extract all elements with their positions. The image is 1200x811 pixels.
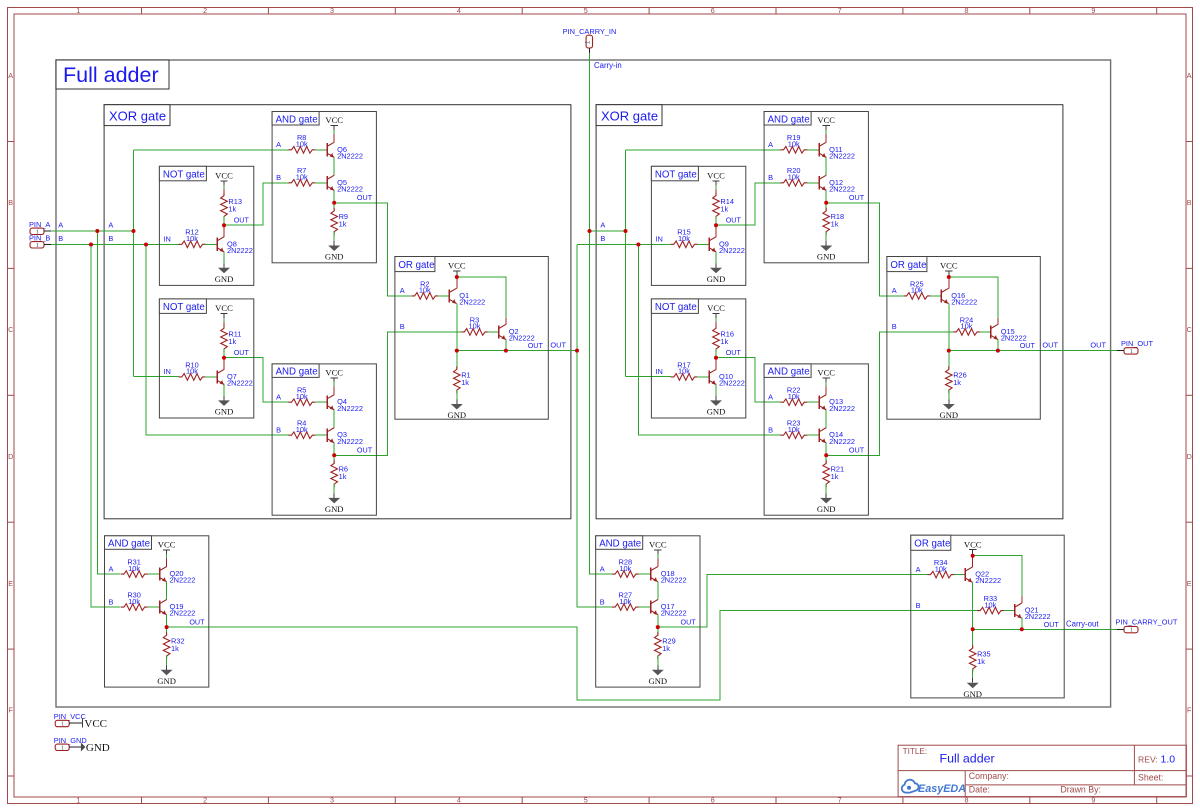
wire R3 to Q2 base (488, 331, 499, 333)
wire Q1 emitter to output node (456, 304, 458, 351)
svg-text:A: A (916, 565, 921, 574)
svg-text:AND gate: AND gate (276, 114, 318, 125)
resistor R30 (121, 591, 148, 611)
svg-text:B: B (108, 234, 113, 243)
OR gate 3 box (911, 535, 1064, 698)
wire Q20 emitter to Q19 collector (166, 582, 168, 600)
svg-text:Carry-out: Carry-out (1066, 619, 1099, 628)
svg-text:1k: 1k (339, 220, 347, 229)
svg-text:GND: GND (817, 252, 836, 262)
svg-text:VCC: VCC (325, 368, 343, 378)
svg-text:OUT: OUT (357, 446, 373, 455)
wire output node to R9 (333, 203, 335, 211)
svg-text:OUT: OUT (234, 215, 250, 224)
transistor Q10 (709, 369, 745, 387)
svg-text:IN: IN (163, 235, 170, 244)
transistor Q14 (819, 428, 855, 446)
wire sum1 vertical to AND4 input B (577, 245, 612, 608)
svg-text:XOR gate: XOR gate (109, 108, 166, 123)
svg-text:B: B (600, 597, 605, 606)
svg-text:10k: 10k (788, 392, 800, 401)
svg-text:2N2222: 2N2222 (975, 576, 1001, 585)
NOT gate 1 label (159, 166, 206, 181)
wire sum1 to NOT3 input (577, 244, 671, 246)
svg-text:Sheet:: Sheet: (1138, 772, 1163, 782)
svg-text:GND: GND (707, 407, 726, 417)
node junction net A tap 1 (95, 229, 99, 233)
AND gate 2 box (272, 364, 376, 515)
wire R2 to Q1 base (438, 295, 449, 297)
svg-text:GND: GND (939, 410, 958, 420)
wire carry-in to AND5 input A (626, 149, 781, 151)
wire R19 to Q11 base (807, 149, 819, 151)
svg-text:OUT: OUT (189, 617, 205, 626)
full adder title box (56, 60, 169, 89)
wire Q19 emitter to output node (166, 615, 168, 627)
resistor R9 (331, 208, 348, 235)
wire carry-in to NOT4 input (626, 376, 672, 378)
svg-text:OUT: OUT (528, 341, 544, 350)
wire VCC stub (OR gate 1) (456, 275, 458, 277)
wire R14 to collector (715, 216, 717, 225)
svg-text:A: A (58, 221, 63, 230)
wire Q18 emitter to Q17 collector (657, 582, 659, 600)
svg-text:B: B (892, 322, 897, 331)
svg-text:B: B (768, 425, 773, 434)
transistor Q11 (819, 142, 855, 160)
resistor R20 (781, 166, 808, 186)
svg-text:E: E (1187, 579, 1192, 588)
wire sum1 to AND6 input B (638, 245, 780, 436)
wire R31 to Q20 base (147, 573, 159, 575)
ground (215, 396, 234, 417)
svg-text:B: B (916, 601, 921, 610)
svg-text:GND: GND (817, 504, 836, 514)
wire R18 to ground (825, 231, 827, 241)
port PIN_CARRY_IN (563, 27, 617, 53)
wire VCC to R14 (715, 185, 717, 189)
wire Q17 emitter to output node (657, 615, 659, 627)
svg-text:VCC: VCC (940, 261, 958, 271)
port PIN_GND (54, 736, 87, 751)
wire R22 to Q13 base (807, 401, 819, 403)
resistor R18 (823, 208, 844, 235)
svg-text:10k: 10k (128, 597, 140, 606)
svg-text:8: 8 (965, 6, 969, 15)
svg-text:B: B (276, 173, 281, 182)
svg-text:10k: 10k (788, 425, 800, 434)
wire R20 to Q12 base (807, 182, 819, 184)
svg-text:10k: 10k (469, 322, 481, 331)
svg-text:VCC: VCC (84, 718, 107, 730)
wire R27 to Q17 base (639, 606, 651, 608)
wire VCC node to Q21 collector (973, 556, 1022, 597)
ground (817, 493, 836, 514)
svg-text:10k: 10k (678, 234, 690, 243)
wire R32 to ground (166, 656, 168, 666)
AND gate 4 box (596, 536, 700, 687)
wire R34 to Q22 base (954, 574, 965, 576)
node junction AND gate 4 output (656, 625, 660, 629)
wire R6 to ground (333, 484, 335, 494)
svg-text:2N2222: 2N2222 (337, 184, 363, 193)
resistor R21 (823, 460, 844, 487)
svg-text:5: 5 (584, 796, 588, 805)
wire VCC to R16 (715, 318, 717, 322)
svg-text:9: 9 (1091, 6, 1095, 15)
svg-text:A: A (768, 140, 773, 149)
node junction AND gate 3 output (165, 625, 169, 629)
transistor Q2 (499, 324, 535, 342)
resistor R14 (713, 193, 734, 220)
wire R35 to ground (972, 669, 974, 679)
NOT gate 4 box (651, 299, 745, 418)
ground (325, 493, 344, 514)
power flag VCC (707, 171, 725, 186)
node junction carry-in tap 2 (624, 229, 628, 233)
node junction NOT gate 4 output (714, 356, 718, 360)
wire output node to R35 (972, 629, 974, 648)
AND gate 4 label (596, 536, 643, 550)
ground (648, 665, 667, 686)
wire AND4 out to OR3 input A (658, 575, 928, 628)
svg-text:2N2222: 2N2222 (829, 151, 855, 160)
svg-text:AND gate: AND gate (599, 539, 641, 550)
transistor Q12 (819, 175, 855, 193)
svg-text:Date:: Date: (969, 784, 990, 794)
port PIN_OUT (1117, 339, 1154, 355)
transistor Q6 (327, 142, 363, 160)
node junction OR gate 3 VCC node (971, 554, 975, 558)
node junction NOT gate 2 output (222, 356, 226, 360)
wire R25 to Q16 base (930, 295, 941, 297)
svg-text:A: A (1187, 71, 1192, 80)
resistor R19 (781, 133, 808, 153)
svg-text:Full adder: Full adder (940, 752, 995, 766)
wire carry-in vertical in XOR2 (625, 150, 627, 377)
resistor R28 (612, 558, 639, 578)
svg-text:2N2222: 2N2222 (459, 298, 485, 307)
wire output node to R26 (948, 351, 950, 370)
svg-text:OUT: OUT (234, 348, 250, 357)
wire NOT3 out to AND5 input B (716, 183, 781, 225)
wire VCC stub (OR gate 2) (948, 275, 950, 277)
node junction AND gate 2 output (332, 453, 336, 457)
AND gate 3 box (105, 536, 209, 687)
wire output node to R21 (825, 455, 827, 463)
wire Q15 emitter to output node (997, 340, 999, 351)
svg-text:PIN_OUT: PIN_OUT (1121, 339, 1154, 348)
svg-text:1: 1 (585, 40, 592, 44)
svg-text:10k: 10k (984, 600, 996, 609)
power flag VCC (448, 261, 466, 276)
svg-text:A: A (109, 564, 114, 573)
svg-text:1.0: 1.0 (1161, 754, 1176, 766)
svg-text:10k: 10k (788, 140, 800, 149)
resistor R25 (904, 279, 931, 299)
power flag VCC (940, 261, 958, 276)
wire R24 to Q15 base (980, 331, 991, 333)
svg-text:1k: 1k (831, 220, 839, 229)
node junction AND gate 5 output (824, 201, 828, 205)
svg-text:2: 2 (203, 796, 207, 805)
svg-text:1: 1 (76, 796, 80, 805)
wire R21 to ground (825, 484, 827, 494)
resistor R15 (671, 228, 698, 248)
XOR gate 1 box (104, 105, 571, 519)
NOT gate 3 label (651, 166, 698, 181)
svg-text:VCC: VCC (649, 539, 667, 549)
wire Q4 emitter to Q3 collector (333, 410, 335, 428)
svg-text:2N2222: 2N2222 (337, 404, 363, 413)
OR gate 1 label (395, 257, 435, 272)
node junction sum1 node (575, 349, 579, 353)
svg-text:7: 7 (838, 796, 842, 805)
wire net A horizontal (51, 230, 134, 232)
svg-text:REV:: REV: (1138, 755, 1158, 765)
svg-text:NOT gate: NOT gate (163, 170, 205, 181)
transistor Q20 (160, 567, 196, 585)
node junction OR gate 1 output node B (504, 349, 508, 353)
transistor Q1 (449, 288, 485, 306)
ground (817, 241, 836, 262)
svg-text:D: D (8, 452, 13, 461)
transistor Q4 (327, 395, 363, 413)
node junction net B tap 2 (144, 243, 148, 247)
wire VCC to Q6 collector (333, 130, 335, 134)
svg-text:5: 5 (584, 6, 588, 15)
wire VCC node to Q16 collector (948, 277, 950, 288)
wire Q11 emitter to Q12 collector (825, 157, 827, 175)
wire AND3 out to OR3 input B (167, 611, 978, 700)
wire base (NOT gate 2) (205, 376, 217, 378)
resistor R3 (461, 315, 488, 335)
transistor Q3 (327, 428, 363, 446)
wire VCC node to Q15 collector (949, 277, 998, 318)
resistor R23 (781, 419, 808, 439)
resistor R1 (454, 366, 471, 393)
svg-text:10k: 10k (678, 367, 690, 376)
resistor R26 (946, 366, 967, 393)
svg-text:10k: 10k (961, 322, 973, 331)
wire R30 to Q19 base (147, 606, 159, 608)
wire VCC to Q11 collector (825, 130, 827, 134)
svg-text:IN: IN (163, 367, 170, 376)
svg-text:1k: 1k (662, 644, 670, 653)
ground (215, 263, 234, 284)
svg-text:OUT: OUT (681, 617, 697, 626)
transistor Q8 (217, 237, 253, 255)
wire emitter to ground (NOT gate 3) (715, 252, 717, 263)
wire Q14 emitter to output node (825, 443, 827, 455)
wire net B to AND3 input B (91, 245, 121, 608)
svg-text:4: 4 (457, 796, 461, 805)
svg-text:B: B (8, 198, 13, 207)
resistor R32 (163, 632, 184, 659)
svg-text:A: A (8, 71, 13, 80)
transistor Q7 (217, 369, 253, 387)
svg-text:OR gate: OR gate (914, 539, 950, 550)
svg-text:10k: 10k (619, 597, 631, 606)
XOR gate 2 label (596, 105, 662, 126)
svg-text:AND gate: AND gate (108, 539, 150, 550)
svg-text:2N2222: 2N2222 (719, 379, 745, 388)
wire carry-in vertical to AND4 input A (590, 53, 613, 574)
svg-text:A: A (276, 392, 281, 401)
svg-text:GND: GND (447, 410, 466, 420)
wire output node to R6 (333, 455, 335, 463)
svg-text:OUT: OUT (1044, 620, 1060, 629)
wire Q6 emitter to Q5 collector (333, 157, 335, 175)
AND gate 6 box (764, 364, 868, 515)
svg-text:IN: IN (655, 235, 662, 244)
wire output rail (OR gate 3) (973, 628, 1022, 630)
port PIN_B (29, 234, 51, 249)
svg-text:OUT: OUT (550, 340, 566, 349)
node junction net B tap 1 (89, 243, 93, 247)
svg-text:VCC: VCC (158, 539, 176, 549)
transistor Q21 (1015, 603, 1051, 621)
wire output node to R1 (456, 351, 458, 370)
wire output node to R29 (657, 627, 659, 635)
node junction AND gate 1 output (332, 201, 336, 205)
power flag VCC (158, 539, 176, 554)
svg-text:1: 1 (36, 242, 39, 249)
wire emitter to ground (NOT gate 1) (223, 252, 225, 263)
resistor R17 (671, 360, 698, 380)
svg-text:10k: 10k (128, 564, 140, 573)
resistor R33 (977, 594, 1004, 614)
svg-text:TITLE:: TITLE: (903, 747, 928, 756)
svg-text:A: A (600, 221, 605, 230)
full adder container box (56, 60, 1111, 707)
resistor R16 (713, 325, 734, 352)
wire output node to R18 (825, 203, 827, 211)
resistor R8 (289, 133, 316, 153)
svg-text:AND gate: AND gate (768, 367, 810, 378)
svg-text:OUT: OUT (1020, 341, 1036, 350)
svg-text:2N2222: 2N2222 (170, 576, 196, 585)
wire VCC to Q20 collector (166, 554, 168, 558)
svg-text:IN: IN (655, 367, 662, 376)
node junction OR gate 1 VCC node (455, 275, 459, 279)
svg-text:VCC: VCC (707, 171, 725, 181)
wire output node to R32 (166, 627, 168, 635)
ground (939, 400, 958, 421)
svg-text:2: 2 (203, 6, 207, 15)
wire VCC to Q4 collector (333, 382, 335, 386)
svg-text:OUT: OUT (1042, 340, 1058, 349)
node junction OR gate 3 output node B (1020, 627, 1024, 631)
svg-text:2N2222: 2N2222 (829, 437, 855, 446)
svg-text:VCC: VCC (817, 115, 835, 125)
node junction AND gate 6 output (824, 453, 828, 457)
svg-text:GND: GND (707, 274, 726, 284)
node junction OR gate 2 output node B (996, 349, 1000, 353)
AND gate 1 label (272, 112, 319, 126)
AND gate 5 label (764, 112, 811, 126)
ground (707, 263, 726, 284)
NOT gate 2 box (159, 299, 253, 418)
wire AND2 out to OR1 input B (334, 332, 461, 455)
svg-text:10k: 10k (186, 234, 198, 243)
NOT gate 4 label (651, 299, 698, 314)
svg-text:VCC: VCC (707, 303, 725, 313)
svg-text:10k: 10k (911, 286, 923, 295)
resistor R24 (953, 315, 980, 335)
wire Q2 emitter to output node (505, 340, 507, 351)
wire AND1 out to OR1 input A (334, 203, 411, 296)
node junction carry-in tap 1 (588, 229, 592, 233)
svg-text:1k: 1k (228, 204, 236, 213)
OR gate 1 box (395, 257, 548, 420)
svg-text:A: A (276, 140, 281, 149)
svg-text:6: 6 (711, 6, 715, 15)
wire base (NOT gate 3) (697, 243, 709, 245)
wire NOT2 out to AND2 input A (224, 358, 289, 403)
power flag VCC (215, 171, 233, 186)
svg-text:VCC: VCC (215, 303, 233, 313)
svg-text:1k: 1k (171, 644, 179, 653)
AND gate 5 box (764, 112, 868, 263)
svg-text:10k: 10k (186, 367, 198, 376)
svg-text:1k: 1k (977, 657, 985, 666)
svg-text:2N2222: 2N2222 (829, 404, 855, 413)
svg-text:VCC: VCC (448, 261, 466, 271)
svg-text:2N2222: 2N2222 (719, 246, 745, 255)
power flag VCC (707, 303, 725, 318)
svg-text:2N2222: 2N2222 (227, 246, 253, 255)
svg-text:2N2222: 2N2222 (951, 298, 977, 307)
wire VCC to R13 (223, 185, 225, 189)
wire net B to AND2 input B (146, 245, 289, 436)
svg-text:GND: GND (215, 274, 234, 284)
wire Q22 emitter to output node (972, 582, 974, 629)
svg-text:Carry-in: Carry-in (594, 61, 622, 70)
title block (898, 745, 1186, 796)
resistor R5 (289, 386, 316, 406)
svg-text:NOT gate: NOT gate (655, 302, 697, 313)
svg-text:1k: 1k (461, 378, 469, 387)
node junction NOT gate 3 output (714, 223, 718, 227)
wire R23 to Q14 base (807, 434, 819, 436)
svg-text:B: B (109, 597, 114, 606)
wire R29 to ground (657, 656, 659, 666)
power flag VCC (215, 303, 233, 318)
ground (963, 678, 982, 699)
resistor R6 (331, 460, 348, 487)
resistor R27 (612, 591, 639, 611)
svg-text:B: B (768, 173, 773, 182)
power flag VCC (325, 115, 343, 130)
node junction OR gate 3 output node A (971, 627, 975, 631)
svg-text:VCC: VCC (964, 539, 982, 549)
svg-text:10k: 10k (296, 140, 308, 149)
node junction NOT gate 1 output (222, 223, 226, 227)
wire base (NOT gate 4) (697, 376, 709, 378)
svg-text:VCC: VCC (215, 171, 233, 181)
resistor R13 (221, 193, 242, 220)
svg-text:2N2222: 2N2222 (661, 609, 687, 618)
wire Q5 emitter to output node (333, 190, 335, 202)
node junction OR gate 2 output node A (947, 349, 951, 353)
svg-text:B: B (58, 234, 63, 243)
svg-text:1: 1 (61, 744, 64, 751)
wire AND6 out to OR2 input B (826, 332, 953, 455)
wire emitter to ground (NOT gate 4) (715, 385, 717, 396)
wire net A to NOT2 input (134, 376, 180, 378)
svg-text:OR gate: OR gate (890, 260, 926, 271)
